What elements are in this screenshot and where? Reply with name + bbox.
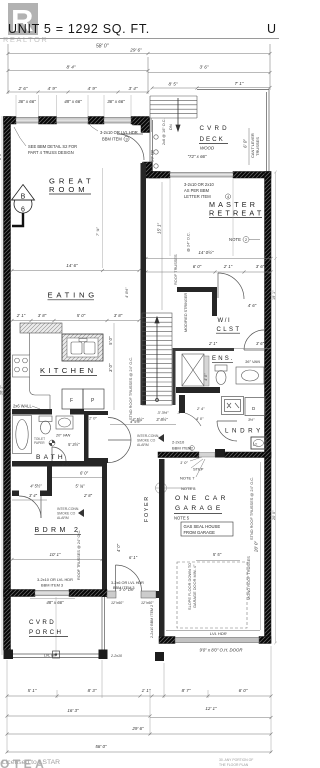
svg-text:FROM GARAGE: FROM GARAGE — [184, 530, 216, 535]
washer box — [222, 397, 244, 415]
svg-text:5' 0": 5' 0" — [77, 313, 86, 318]
svg-text:6' 0": 6' 0" — [80, 471, 89, 476]
svg-text:3' 6": 3' 6" — [256, 341, 265, 346]
closet walls — [84, 411, 108, 415]
beam marker diamond B/6 — [14, 195, 32, 213]
deck entry door swing — [117, 134, 144, 160]
svg-text:5' 0": 5' 0" — [108, 336, 113, 345]
svg-text:GARAGE DOOR MIN. 4": GARAGE DOOR MIN. 4" — [192, 564, 197, 608]
svg-text:2' 1": 2' 1" — [208, 341, 218, 346]
note 3-2x10 or 2x10 as per bbm — [184, 182, 215, 199]
svg-text:5'0" DR: 5'0" DR — [151, 149, 155, 162]
great room / eating division line — [102, 168, 104, 268]
svg-text:4' 0½": 4' 0½" — [125, 287, 129, 298]
svg-text:7' 1": 7' 1" — [235, 81, 244, 86]
svg-text:2x6 @ 16" O.C.: 2x6 @ 16" O.C. — [162, 118, 166, 145]
svg-text:12"x60": 12"x60" — [111, 601, 124, 605]
garage corner post — [155, 652, 164, 661]
counter along left wall — [30, 333, 51, 409]
svg-text:LNDRY: LNDRY — [225, 428, 264, 435]
svg-text:5' 1": 5' 1" — [28, 688, 37, 693]
svg-text:AS PER BBM: AS PER BBM — [184, 188, 210, 193]
deck post symbols — [154, 135, 158, 168]
note: see bbm detail — [28, 144, 77, 155]
svg-text:2: 2 — [245, 238, 247, 242]
rotated dim 15'1" stair hall — [161, 182, 163, 310]
REALTOR watermark logo top-left — [3, 3, 48, 44]
top dimension lines — [7, 44, 272, 94]
laundry tub — [251, 437, 266, 449]
porch posts — [4, 650, 14, 660]
left margin dim line — [1, 116, 3, 655]
bath door swing — [52, 447, 66, 461]
bottom-right disclaimer text — [219, 758, 253, 767]
pantry box — [83, 389, 104, 409]
svg-text:3-2x6 OR LVL HDR: 3-2x6 OR LVL HDR — [111, 581, 144, 585]
garage slope dashed box — [177, 562, 247, 628]
svg-text:ROOM: ROOM — [49, 185, 89, 194]
svg-text:8' 0": 8' 0" — [0, 152, 2, 160]
wall master closet top — [177, 287, 215, 292]
horizontal rule under title — [0, 38, 279, 40]
svg-text:BBM ITEM 3: BBM ITEM 3 — [41, 583, 63, 588]
svg-text:NOTE 7: NOTE 7 — [180, 476, 195, 481]
svg-text:DN: DN — [168, 124, 173, 130]
svg-text:2' 8": 2' 8" — [83, 493, 93, 498]
closet double door swings — [108, 418, 131, 463]
gas seal note box — [181, 522, 233, 536]
svg-text:BBM ITEM: BBM ITEM — [102, 137, 122, 142]
svg-text:4' 9": 4' 9" — [48, 86, 57, 91]
smoke alarm note — [57, 507, 79, 520]
bdrm2 top wall with door opening — [12, 491, 19, 497]
svg-text:7' ¾": 7' ¾" — [95, 227, 100, 236]
svg-text:14' 0½": 14' 0½" — [198, 249, 214, 255]
svg-text:INTER-CONN.: INTER-CONN. — [137, 434, 159, 438]
svg-text:6' 1": 6' 1" — [129, 555, 138, 560]
svg-text:LVL HDR: LVL HDR — [210, 631, 227, 636]
bath vanity — [56, 416, 73, 429]
window 48x66 bdrm2 — [35, 591, 69, 596]
svg-text:48" x 66": 48" x 66" — [64, 99, 82, 104]
svg-text:NOTE 8: NOTE 8 — [181, 486, 196, 491]
svg-text:2' 6": 2' 6" — [18, 86, 28, 91]
svg-text:6: 6 — [21, 207, 25, 214]
svg-text:LT.: LT. — [253, 443, 258, 447]
window 72x66 master — [170, 173, 233, 178]
bath south wall — [12, 461, 47, 467]
svg-text:3' 3½": 3' 3½" — [157, 410, 169, 415]
bdrm2 south wall with window — [4, 590, 36, 597]
wall closet right vertical — [212, 287, 217, 316]
master door near right wall — [244, 330, 264, 350]
svg-text:29' 6": 29' 6" — [129, 48, 142, 53]
kitchen rotated dim — [113, 323, 115, 410]
svg-text:5' 3½": 5' 3½" — [68, 442, 80, 447]
svg-text:2: 2 — [191, 447, 193, 451]
svg-text:4' 0": 4' 0" — [116, 543, 121, 552]
svg-text:STND ROOF TRUSSES @ 24" O.C.: STND ROOF TRUSSES @ 24" O.C. — [249, 477, 254, 540]
deck outline — [150, 90, 269, 172]
top wall of great room with windows — [4, 117, 150, 125]
svg-text:8' 4": 8' 4" — [67, 65, 76, 70]
svg-text:PORCH: PORCH — [29, 629, 63, 636]
svg-text:3' 6": 3' 6" — [256, 264, 265, 269]
svg-text:2' 0": 2' 0" — [88, 416, 97, 421]
right margin dim line — [274, 171, 277, 645]
svg-text:3-2x10 OR LVL HDR: 3-2x10 OR LVL HDR — [100, 130, 138, 135]
svg-text:3' 0": 3' 0" — [108, 363, 113, 372]
garage overhead door — [175, 638, 259, 643]
foyer smoke alarm note — [137, 434, 159, 447]
bath toilet — [39, 416, 52, 434]
svg-text:4' 0": 4' 0" — [196, 417, 204, 421]
stove — [13, 355, 30, 377]
garage west wall — [159, 459, 165, 643]
svg-text:GARAGE: GARAGE — [175, 505, 224, 512]
svg-text:@ 24" O.C.: @ 24" O.C. — [186, 232, 191, 252]
bdrm2 door swing — [19, 496, 41, 518]
svg-text:15' 1": 15' 1" — [157, 223, 162, 234]
svg-text:36" x 66": 36" x 66" — [18, 99, 36, 104]
bdrm2 right wall — [102, 461, 107, 597]
svg-text:ONE CAR: ONE CAR — [175, 495, 229, 502]
label CVRD PORCH — [29, 619, 63, 636]
svg-text:14' 6": 14' 6" — [66, 263, 78, 268]
svg-text:3-2x10 OR 2x10: 3-2x10 OR 2x10 — [184, 182, 215, 187]
wall great room / stair hall (W6) — [141, 163, 147, 405]
hdr note bdrm2 — [37, 577, 73, 588]
porch outline — [7, 597, 107, 658]
deck door corner block — [143, 162, 161, 178]
svg-text:36" VAN: 36" VAN — [245, 359, 260, 364]
svg-text:3: 3 — [125, 138, 127, 142]
foyer front wall with sidelights — [107, 591, 116, 598]
master window extension lines — [170, 179, 233, 256]
svg-text:3' 4": 3' 4" — [29, 493, 38, 498]
svg-text:10' 1": 10' 1" — [50, 552, 61, 557]
svg-text:3' 6": 3' 6" — [200, 65, 209, 70]
porch centre line — [55, 597, 57, 654]
svg-text:CVRD: CVRD — [29, 619, 56, 626]
svg-text:20' 0": 20' 0" — [254, 541, 259, 553]
svg-text:BATH: BATH — [36, 454, 66, 461]
svg-text:58' 0": 58' 0" — [96, 44, 109, 50]
svg-text:PART 4 TRUSS DESIGN: PART 4 TRUSS DESIGN — [28, 150, 74, 155]
svg-text:2-2x10: 2-2x10 — [172, 440, 185, 445]
fan symbol — [49, 440, 55, 446]
svg-text:1' 0": 1' 0" — [180, 460, 188, 465]
master/ens dim row — [208, 341, 265, 346]
svg-text:6' 0": 6' 0" — [239, 688, 248, 693]
master entry door swing — [218, 273, 244, 299]
svg-text:3½": 3½" — [248, 418, 255, 422]
svg-text:2' 1": 2' 1" — [16, 313, 26, 318]
double sink — [71, 342, 82, 354]
bath north wall — [12, 409, 52, 415]
svg-text:ROOF TRUSSES @ 24" O.C.: ROOF TRUSSES @ 24" O.C. — [77, 530, 81, 580]
svg-text:3-2x10 OR LVL HDR: 3-2x10 OR LVL HDR — [37, 577, 73, 582]
svg-text:3' 4": 3' 4" — [129, 86, 138, 91]
ens vanity — [236, 367, 264, 384]
svg-text:BBM ITEM: BBM ITEM — [172, 446, 191, 451]
front door hdr note — [111, 581, 144, 590]
svg-text:8' 7": 8' 7" — [182, 688, 191, 693]
svg-text:3' 0" DR: 3' 0" DR — [119, 587, 134, 592]
svg-text:BDRM 2: BDRM 2 — [35, 527, 82, 534]
svg-text:ALARM: ALARM — [57, 516, 69, 520]
svg-text:11' 1": 11' 1" — [5, 537, 10, 548]
svg-text:LVL BM: LVL BM — [44, 654, 57, 658]
right exterior wall — [265, 172, 272, 644]
svg-text:19' 1": 19' 1" — [272, 290, 276, 300]
svg-text:20' 0": 20' 0" — [272, 510, 276, 520]
stair arrow — [155, 317, 159, 402]
svg-text:4: 4 — [227, 195, 229, 199]
window 36x66 great room right — [104, 118, 131, 124]
svg-text:12' 1": 12' 1" — [205, 706, 217, 711]
svg-text:16' 3": 16' 3" — [67, 708, 79, 713]
hall stair wall stub — [179, 395, 185, 413]
dims around hall — [29, 462, 93, 499]
svg-text:PAPER: PAPER — [34, 441, 45, 445]
beam line from marker to wall — [12, 213, 23, 226]
eating dim row — [16, 313, 123, 318]
svg-text:LETTER ITEM: LETTER ITEM — [184, 194, 211, 199]
extension lines from dims to wall — [16, 95, 131, 116]
svg-text:INTER-CONN.: INTER-CONN. — [57, 507, 79, 511]
svg-text:WOOD: WOOD — [200, 146, 215, 151]
label W/I CLST — [217, 318, 242, 333]
svg-text:B: B — [21, 194, 26, 201]
svg-text:GAS SEAL HOUSE: GAS SEAL HOUSE — [184, 524, 221, 529]
toilet paper note — [34, 437, 45, 445]
garage man-door sill — [199, 453, 215, 458]
front door swing — [116, 565, 142, 591]
tub — [13, 416, 32, 454]
svg-text:30. ANY PORTION OF: 30. ANY PORTION OF — [219, 758, 253, 762]
ens bottom wall — [176, 387, 220, 393]
svg-text:8' 5": 8' 5" — [169, 82, 178, 87]
dryer box — [245, 398, 265, 416]
label MASTER RETREAT — [209, 200, 264, 218]
svg-text:3' 8": 3' 8" — [38, 313, 47, 318]
svg-text:9'0" x 8'0" O.H. DOOR: 9'0" x 8'0" O.H. DOOR — [200, 648, 243, 653]
svg-text:58' 0": 58' 0" — [95, 744, 107, 749]
svg-text:KITCHEN: KITCHEN — [40, 366, 96, 375]
svg-text:12"x60": 12"x60" — [141, 601, 154, 605]
svg-text:F: F — [70, 398, 73, 404]
svg-text:RETREAT: RETREAT — [209, 209, 264, 218]
svg-text:THE FLOOR PLAN: THE FLOOR PLAN — [219, 763, 249, 767]
svg-text:3' 8": 3' 8" — [114, 313, 123, 318]
svg-text:CVRD: CVRD — [200, 125, 230, 132]
svg-text:4' 9": 4' 9" — [88, 86, 97, 91]
svg-text:20" VAN: 20" VAN — [55, 434, 70, 438]
foyer dim row — [132, 417, 168, 422]
svg-text:2x6 WALL: 2x6 WALL — [13, 404, 32, 409]
window size labels top wall — [18, 99, 125, 104]
shower with X — [182, 354, 209, 386]
jog wall corner to deck door — [133, 118, 150, 133]
kitchen island — [62, 334, 103, 361]
svg-text:4' 5½": 4' 5½" — [130, 419, 142, 424]
svg-text:26' 1": 26' 1" — [0, 385, 4, 395]
svg-text:UNIT 5 = 1292 SQ. FT.: UNIT 5 = 1292 SQ. FT. — [8, 22, 150, 36]
closet/ens divider wall — [174, 348, 234, 351]
lndry door swing — [217, 421, 237, 441]
kitchen counter north — [20, 323, 62, 333]
hall south wall / bdrm2 upper wall — [47, 461, 52, 496]
svg-text:TRUSSES: TRUSSES — [255, 137, 260, 156]
label GREAT ROOM — [49, 177, 95, 195]
svg-text:5' ¾": 5' ¾" — [75, 484, 85, 489]
svg-text:3': 3' — [178, 410, 181, 415]
svg-text:SEE BBM DETAIL S2 FOR: SEE BBM DETAIL S2 FOR — [28, 144, 77, 149]
svg-text:ENS.: ENS. — [212, 356, 235, 362]
cantilever trusses note (rotated) — [250, 133, 260, 158]
svg-text:2-2x10: 2-2x10 — [110, 654, 122, 658]
svg-text:STND ROOF TRUSSES @ 24" O.C.: STND ROOF TRUSSES @ 24" O.C. — [128, 357, 133, 420]
svg-text:5' 5": 5' 5" — [213, 552, 222, 557]
left exterior wall — [4, 117, 11, 651]
hall dims — [157, 410, 180, 415]
svg-text:4' 5½": 4' 5½" — [30, 484, 42, 489]
svg-text:U: U — [267, 22, 276, 36]
svg-text:2-2x10 BBM ITEM 2: 2-2x10 BBM ITEM 2 — [150, 605, 154, 638]
svg-text:2' 1": 2' 1" — [223, 264, 233, 269]
bottom-left LSTAR watermark — [0, 757, 60, 768]
deck door jamb line and size — [151, 118, 153, 132]
svg-text:FOYER: FOYER — [144, 495, 150, 522]
svg-text:SMOKE CO: SMOKE CO — [137, 439, 156, 443]
note: 3-2x10 or lvl hdr — [100, 130, 138, 142]
stair west wall — [173, 348, 176, 405]
svg-text:3' 8½": 3' 8½" — [156, 417, 168, 422]
svg-text:8' 3": 8' 3" — [88, 688, 97, 693]
svg-text:"72" x 66": "72" x 66" — [187, 154, 207, 159]
svg-text:29' 6": 29' 6" — [131, 726, 144, 731]
svg-text:MODIFIED STRINGER: MODIFIED STRINGER — [184, 293, 188, 332]
svg-text:ALARM: ALARM — [137, 443, 149, 447]
label CVRD DECK — [200, 125, 230, 143]
svg-text:6' 0": 6' 0" — [243, 139, 248, 148]
stair direction arrow — [176, 98, 180, 131]
hall note 2-2x10 bbm item 2 — [172, 440, 191, 451]
svg-text:36" x 66": 36" x 66" — [107, 99, 125, 104]
deck vertical dim 6'0" — [248, 128, 250, 165]
svg-text:W/I: W/I — [218, 318, 232, 324]
svg-text:NOTE 5: NOTE 5 — [174, 516, 190, 521]
svg-text:Licensed to LSTAR: Licensed to LSTAR — [2, 759, 60, 766]
ens toilet — [215, 365, 227, 385]
svg-text:4' 6": 4' 6" — [248, 303, 257, 308]
fridge box — [62, 389, 83, 409]
svg-text:NOTE: NOTE — [229, 237, 241, 242]
svg-text:1' 1": 1' 1" — [142, 688, 151, 693]
window 36x66 great room left — [16, 118, 39, 124]
svg-text:6' 0": 6' 0" — [193, 264, 202, 269]
window 48x66 great room centre — [57, 118, 89, 124]
svg-text:4' 0": 4' 0" — [204, 373, 208, 381]
label ONE CAR GARAGE — [175, 495, 229, 512]
svg-text:48" x 66": 48" x 66" — [46, 600, 64, 605]
master top wall segments — [149, 172, 170, 179]
extension lines bottom — [7, 646, 271, 753]
svg-text:REALTOR: REALTOR — [3, 35, 48, 44]
svg-text:STEP: STEP — [193, 467, 204, 472]
svg-text:2' 4": 2' 4" — [196, 407, 205, 411]
svg-text:EATING: EATING — [48, 291, 99, 300]
svg-text:2' 6": 2' 6" — [61, 462, 71, 467]
svg-text:MONO ROOF TRUSSES: MONO ROOF TRUSSES — [246, 556, 251, 600]
svg-text:SMOKE CO: SMOKE CO — [57, 512, 76, 516]
svg-text:CLST: CLST — [217, 327, 242, 333]
deck stairs down — [150, 96, 197, 118]
garage front wall — [159, 637, 175, 644]
svg-text:DECK: DECK — [200, 136, 225, 143]
